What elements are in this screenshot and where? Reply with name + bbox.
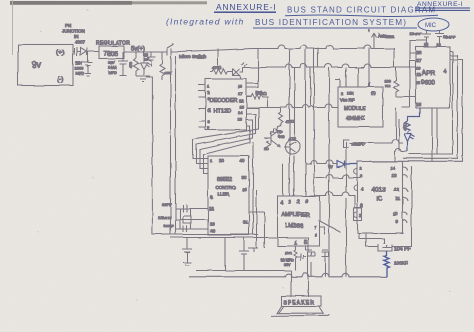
svg-text:5v: 5v [328,164,334,169]
svg-text:JUNCTION: JUNCTION [62,29,85,34]
svg-text:30: 30 [242,175,247,180]
resistor R6 470ohm [279,108,295,125]
wire vertical v346 [345,68,347,277]
resistor R4 55K [247,91,268,108]
resistor R1 470ohm [129,52,139,76]
decoder U2 HT12D [206,79,247,130]
svg-text:20: 20 [219,158,224,163]
LED D5 [404,134,415,152]
wire apr nest w1 [409,52,453,155]
resistor R2 15K [160,52,172,80]
svg-text:BUS IDENTIFICATION SYSTEM): BUS IDENTIFICATION SYSTEM) [255,18,407,27]
wire vertical v304 [306,48,311,197]
wire vertical v290 [289,49,291,197]
ic U7 4013 [358,162,403,234]
wire v396 [396,108,437,162]
svg-text:(Integrated with: (Integrated with [166,17,244,27]
capacitor C7 [322,250,329,262]
svg-text:19: 19 [210,221,215,226]
svg-text:1444: 1444 [108,66,116,70]
LED D3 [229,62,247,79]
wire y151 line [395,149,408,162]
wire mic to apr [410,41,427,108]
svg-text:470: 470 [129,62,133,68]
svg-text:DECODER: DECODER [210,98,238,104]
svg-text:12: 12 [437,44,441,48]
wire decoder pin18 loop to rail [247,49,259,88]
apr U6 APR9600 [416,43,450,108]
wire 5V rail segment B [178,45,394,52]
wire bundle decoder to controller w3 [200,120,253,169]
svg-text:13: 13 [425,43,429,47]
svg-text:ANNEXURE-I: ANNEXURE-I [417,1,463,8]
svg-text:(-): (-) [58,77,64,84]
svg-text:470Ω: 470Ω [212,65,222,70]
svg-text:3: 3 [289,200,292,206]
wire apr left stubs [396,53,416,97]
wire rail3 [247,104,338,108]
svg-text:27: 27 [417,58,422,63]
svg-text:APR: APR [422,70,436,77]
resistor R9 100K [384,68,399,98]
svg-text:MODULE: MODULE [344,106,366,112]
wire 33mfd line [349,140,403,144]
wire rail2 5V [243,64,411,68]
svg-text:↑: ↑ [368,29,370,33]
svg-text:4: 4 [281,201,284,207]
wire vertical v369 [368,48,370,88]
svg-text:7805: 7805 [104,51,119,58]
wire right return [392,166,412,247]
wire lm386 pin4 drop [283,156,314,197]
svg-text:(1): (1) [371,91,376,95]
resistor R7 560ohm [264,141,271,151]
svg-text:LM386: LM386 [286,224,304,230]
wire speaker leads [291,263,326,298]
svg-text:SPEAKER: SPEAKER [283,300,315,306]
svg-text:IN: IN [74,34,79,39]
svg-text:mF: mF [144,57,149,61]
capacitor C10 104PF right [436,31,456,47]
wire 4013 left small box [354,169,362,221]
svg-text:15: 15 [417,102,422,107]
svg-text:548: 548 [278,135,284,139]
transistor Q2 472 [284,136,301,154]
svg-text:18: 18 [209,206,214,211]
svg-text:15: 15 [239,104,244,109]
svg-text:9v: 9v [32,60,42,70]
svg-text:1kΩ: 1kΩ [285,252,292,256]
capacitor C1 25V 1000MFD [75,52,93,77]
svg-text:LLER: LLER [218,192,230,197]
wire vertical v329 [328,68,330,277]
diode D4 5V [328,161,358,170]
svg-text:4: 4 [444,69,447,75]
svg-text:12MHZ: 12MHZ [158,215,172,220]
svg-text:33PF: 33PF [164,224,174,229]
speaker SPK1 [271,296,331,316]
battery B1 9V [18,45,73,86]
svg-text:55kΩ: 55kΩ [256,91,267,96]
mic M1 [418,18,449,31]
crystal X1 12MHZ with caps [158,202,208,232]
svg-text:28: 28 [417,50,422,55]
resistor R8 1K [285,250,297,271]
micro switch SW1 [164,44,207,60]
svg-text:100: 100 [384,79,390,83]
svg-text:6: 6 [305,199,308,205]
svg-text:4013: 4013 [372,187,387,194]
svg-text:2: 2 [341,92,343,96]
svg-text:10 MFD: 10 MFD [281,259,294,263]
wire bottom rail mid [171,238,309,277]
svg-text:IC: IC [377,197,383,203]
resistor R5 2.2K diagonal [270,124,281,134]
wire rf module top pins [335,68,370,88]
svg-text:KΩ: KΩ [385,84,391,88]
capacitor C6 [306,250,316,257]
wire bottom long rail [189,271,387,277]
svg-text:11: 11 [396,196,401,201]
wire rail1 right end drop [393,48,395,68]
svg-text:13: 13 [417,73,421,77]
svg-text:104PF: 104PF [410,32,422,37]
svg-text:AMPLIFIER: AMPLIFIER [282,213,310,219]
svg-text:9: 9 [211,195,214,200]
svg-text:14: 14 [390,166,396,171]
svg-text:DIN: DIN [347,92,354,96]
capacitor C8 10MFD [239,238,258,271]
wire vertical v314 [314,48,318,179]
svg-text:10: 10 [393,212,398,217]
controller U3 89S52 [208,156,249,235]
svg-text:47Ω: 47Ω [402,122,408,130]
wire q2 to bus [293,68,296,164]
svg-text:5: 5 [304,240,307,246]
svg-text:PN: PN [65,23,71,28]
svg-text:(+): (+) [57,50,65,57]
wire apr nest w3 [370,60,463,162]
svg-text:33MFD: 33MFD [351,142,365,147]
wire 5V rail segment A [124,51,164,53]
svg-text:13: 13 [392,173,398,178]
wire left long vertical [146,77,152,235]
svg-text:104 PF: 104 PF [394,247,411,253]
wire speaker feedback diagonal [318,220,340,235]
wire y195 line [309,192,361,208]
svg-text:18: 18 [238,84,243,89]
capacitor C11 33MFD [343,140,365,148]
scan left edge line [12,0,14,55]
wire bundle decoder to controller w1 [193,108,259,159]
svg-text:4007: 4007 [75,40,86,45]
svg-text:BUS STAND CIRCUIT DIAGRAM: BUS STAND CIRCUIT DIAGRAM [287,6,436,15]
amplifier U4 LM386 [278,196,320,247]
regulator U1 7805 [96,41,130,59]
svg-text:434MHZ: 434MHZ [346,116,365,122]
rf module U5 434MHZ [338,87,383,127]
capacitor C4 below controller [182,238,192,266]
wire apr nest w2 [403,56,458,159]
svg-text:ANNEXURE-I: ANNEXURE-I [216,2,277,12]
svg-text:14: 14 [238,110,243,115]
svg-text:16: 16 [239,98,244,103]
svg-text:2: 2 [297,200,300,206]
svg-text:35V: 35V [284,263,291,267]
LED D2 indicator [140,52,151,75]
antenna ANT1 [368,29,394,49]
capacitor C3 10MFD [144,52,156,66]
svg-text:35: 35 [242,187,247,192]
wire y178 line [314,175,361,179]
svg-text:31: 31 [243,220,248,225]
svg-text:MFD: MFD [108,71,116,75]
wire bundle decoder to controller w2 [197,114,256,164]
svg-text:33PF: 33PF [162,202,172,207]
svg-text:1: 1 [294,241,297,247]
svg-text:15: 15 [416,81,420,85]
resistor R3 470ohm above decoder [210,49,229,75]
svg-text:1k: 1k [264,147,268,151]
paper speck 1 [38,9,450,301]
svg-text:25V: 25V [108,61,115,65]
wire controller right verticals [249,142,265,248]
svg-text:40: 40 [240,159,245,164]
battery terminal bars [73,47,77,57]
wire 4013 right pin stubs [403,167,408,223]
svg-text:104PF: 104PF [444,35,456,40]
svg-text:Vcc RF: Vcc RF [340,98,355,103]
svg-text:20: 20 [210,228,215,233]
svg-text:19: 19 [417,66,422,71]
capacitor C12 104PF [378,244,411,253]
svg-text:13: 13 [238,117,243,122]
ground GND1 [136,76,150,82]
capacitor C9 104PF left [410,31,432,47]
capacitor C2 25V 1000MFD [108,52,128,76]
wire 4013 bottom to cap [359,233,384,247]
diode D1 IN4007 [62,23,99,56]
wire bottom rail left [152,234,258,236]
svg-text:12: 12 [394,187,399,192]
svg-text:MIC: MIC [425,23,437,29]
capacitor C5 10MFD 35V [281,254,307,268]
wire y163 node line [306,160,338,164]
svg-text:5: 5 [208,108,211,114]
wire left rail vertical pair [171,56,176,235]
svg-text:TIP: TIP [277,130,283,134]
wire bundle decoder to controller w4 [204,126,250,174]
svg-text:89552: 89552 [217,177,232,183]
wire lm386 bottom pins [296,246,306,250]
svg-text:17: 17 [238,91,243,96]
transistor Q1 548 [264,130,284,147]
wire decoder left pin stubs [199,85,206,127]
resistor R10 47ohm [402,108,420,133]
resistor R11 100K [384,251,409,277]
svg-text:CONTRO: CONTRO [216,185,236,190]
svg-text:100KΩ: 100KΩ [394,261,409,266]
scan top bar [10,1,132,5]
svg-text:Antenna: Antenna [378,34,394,39]
svg-text:Micro Switch: Micro Switch [179,54,207,60]
svg-text:HT12D: HT12D [213,108,231,114]
svg-text:9600: 9600 [421,80,435,86]
svg-text:MFD: MFD [76,71,85,76]
